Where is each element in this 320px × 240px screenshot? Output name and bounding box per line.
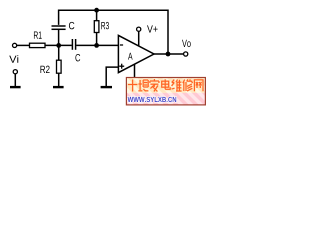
watermark box xyxy=(126,78,205,105)
ground (lower input) xyxy=(10,86,21,88)
op-amp U1 triangle xyxy=(118,35,154,72)
resistor R3 xyxy=(94,10,99,45)
op-amp minus input mark xyxy=(120,44,123,46)
ground (below R2) xyxy=(53,86,64,88)
ground (noninverting input) xyxy=(101,86,112,88)
node B junction dot (R3 bottom) xyxy=(94,43,99,48)
wire noninverting input to ground xyxy=(106,67,118,86)
label R1 xyxy=(34,31,42,38)
watermark hanzi halo xyxy=(128,79,203,92)
wire V+ pin xyxy=(138,31,140,46)
resistor R1 xyxy=(30,43,46,47)
wire output xyxy=(154,53,184,55)
op-amp plus input mark xyxy=(119,64,124,69)
label R2 xyxy=(40,66,49,73)
terminal V+ xyxy=(137,27,141,31)
label Vi xyxy=(9,55,18,63)
watermark url text xyxy=(128,97,177,102)
node A junction dot xyxy=(56,43,61,48)
wire V- pin xyxy=(134,64,136,77)
node output junction dot xyxy=(166,52,171,57)
capacitor C (top, vertical) xyxy=(52,26,66,45)
resistor R2 xyxy=(57,45,62,86)
label C (top capacitor) xyxy=(69,22,74,29)
label Vo xyxy=(182,40,191,47)
watermark border xyxy=(126,78,205,105)
label R3 xyxy=(101,22,109,29)
wire C to inverting input xyxy=(76,44,118,46)
wire top feedback rail xyxy=(59,10,168,54)
terminal Vi xyxy=(13,43,17,47)
label C (series capacitor) xyxy=(75,54,80,61)
capacitor C (series, horizontal) xyxy=(72,39,75,50)
label A (op-amp) xyxy=(128,53,133,60)
terminal Vo xyxy=(184,52,188,56)
wire lower input to ground xyxy=(14,74,16,86)
watermark hanzi 十堰家电维修网 xyxy=(128,79,203,92)
terminal lower input xyxy=(13,70,17,74)
node top junction dot (R3 top on rail) xyxy=(94,8,99,13)
label V+ xyxy=(147,25,158,32)
wire R1 to node A xyxy=(45,44,72,46)
wire Vi to R1 xyxy=(17,44,30,46)
